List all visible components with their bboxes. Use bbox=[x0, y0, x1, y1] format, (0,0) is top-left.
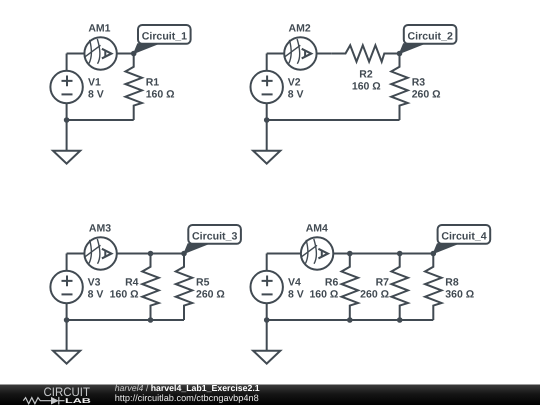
svg-text:V2: V2 bbox=[288, 76, 301, 88]
node Circuit_4 bbox=[431, 251, 437, 257]
svg-text:R4: R4 bbox=[125, 276, 139, 288]
wire bottom rail bbox=[67, 119, 134, 121]
svg-text:R2: R2 bbox=[359, 69, 373, 81]
svg-text:260 Ω: 260 Ω bbox=[196, 289, 225, 301]
node Circuit_2 bbox=[397, 51, 403, 57]
svg-text:Circuit_1: Circuit_1 bbox=[142, 30, 187, 42]
svg-text:AM3: AM3 bbox=[89, 222, 111, 234]
svg-text:8 V: 8 V bbox=[288, 289, 304, 301]
wire bottom rail 3 bbox=[67, 319, 184, 321]
ground 3 bbox=[53, 320, 80, 364]
resistor R8 bbox=[425, 254, 442, 321]
label V3 8 V bbox=[88, 276, 104, 300]
junction V3 rail bbox=[64, 317, 70, 323]
ammeter AM2 bbox=[284, 37, 316, 69]
ammeter AM1 bbox=[84, 37, 116, 69]
ground 4 bbox=[253, 320, 280, 364]
svg-text:harvel4 / harvel4_Lab1_Exercis: harvel4 / harvel4_Lab1_Exercise2.1 bbox=[115, 383, 260, 393]
svg-text:R6: R6 bbox=[325, 276, 339, 288]
svg-text:V3: V3 bbox=[88, 276, 101, 288]
svg-text:Circuit_4: Circuit_4 bbox=[441, 230, 486, 242]
label R2 160 Ohm bbox=[352, 69, 381, 93]
resistor R6 bbox=[342, 254, 359, 321]
wire top: V3 to AM3 to node bbox=[67, 253, 184, 255]
svg-text:R1: R1 bbox=[146, 76, 160, 88]
svg-text:http://circuitlab.com/ctbcngav: http://circuitlab.com/ctbcngavbp4n8 bbox=[115, 393, 259, 403]
wire bottom rail 4 bbox=[267, 319, 434, 321]
flag Circuit_3 bbox=[184, 225, 241, 254]
svg-text:160 Ω: 160 Ω bbox=[110, 289, 139, 301]
svg-text:8 V: 8 V bbox=[288, 89, 304, 101]
wire top: V2 to AM2 to R2 bbox=[267, 53, 332, 55]
logo diode bbox=[51, 397, 59, 405]
wire bottom rail 2 bbox=[267, 119, 400, 121]
wire V4 left vertical bbox=[266, 254, 268, 321]
svg-text:AM2: AM2 bbox=[289, 22, 311, 34]
svg-text:V4: V4 bbox=[288, 276, 301, 288]
junction R7 top bbox=[397, 251, 403, 257]
resistor R2 bbox=[332, 45, 400, 62]
label R7 260 Ohm bbox=[360, 276, 389, 300]
ground bbox=[53, 120, 80, 164]
voltage source V2 bbox=[251, 71, 283, 103]
ground 2 bbox=[253, 120, 280, 164]
junction R4 bottom bbox=[148, 317, 154, 323]
svg-text:R5: R5 bbox=[196, 276, 210, 288]
resistor R5 bbox=[176, 254, 193, 321]
voltage source V1 bbox=[50, 71, 82, 103]
resistor R1 bbox=[125, 54, 142, 121]
flag Circuit_1 bbox=[134, 25, 191, 54]
svg-text:CIRCUIT: CIRCUIT bbox=[44, 385, 91, 399]
svg-text:Circuit_3: Circuit_3 bbox=[192, 230, 237, 242]
resistor R7 bbox=[391, 254, 408, 321]
junction at V2 bottom rail bbox=[264, 117, 270, 123]
svg-text:R7: R7 bbox=[376, 276, 390, 288]
svg-text:260 Ω: 260 Ω bbox=[360, 289, 389, 301]
wire V1 left vertical bbox=[66, 54, 68, 121]
flag Circuit_2 bbox=[400, 25, 457, 54]
label R8 360 Ohm bbox=[445, 276, 474, 300]
svg-text:R3: R3 bbox=[412, 76, 426, 88]
svg-text:160 Ω: 160 Ω bbox=[352, 81, 381, 93]
svg-text:V1: V1 bbox=[88, 76, 101, 88]
label R6 160 Ohm bbox=[309, 276, 338, 300]
label R4 160 Ohm bbox=[110, 276, 139, 300]
wire V3 left vertical bbox=[66, 254, 68, 321]
junction R6 bottom bbox=[347, 317, 353, 323]
node Circuit_3 bbox=[181, 251, 187, 257]
ammeter AM3 bbox=[84, 237, 116, 269]
junction at V1 bottom rail bbox=[64, 117, 70, 123]
svg-text:160 Ω: 160 Ω bbox=[146, 89, 175, 101]
svg-text:Circuit_2: Circuit_2 bbox=[408, 30, 453, 42]
svg-text:260 Ω: 260 Ω bbox=[412, 89, 441, 101]
junction R6 top bbox=[347, 251, 353, 257]
svg-text:8 V: 8 V bbox=[88, 289, 104, 301]
wire top: V4 to AM4 to node bbox=[267, 253, 434, 255]
junction R4 top bbox=[148, 251, 154, 257]
svg-text:160 Ω: 160 Ω bbox=[309, 289, 338, 301]
wire V2 left vertical bbox=[266, 54, 268, 121]
resistor R3 bbox=[391, 54, 408, 121]
svg-text:LAB: LAB bbox=[65, 398, 91, 405]
svg-text:R8: R8 bbox=[445, 276, 459, 288]
voltage source V4 bbox=[251, 271, 283, 303]
label R3 260 Ohm bbox=[412, 76, 441, 100]
label V2 8 V bbox=[288, 76, 304, 100]
svg-text:8 V: 8 V bbox=[88, 89, 104, 101]
junction R7 bottom bbox=[397, 317, 403, 323]
junction V4 rail bbox=[264, 317, 270, 323]
wire top: V1 to AM1 to node bbox=[67, 53, 134, 55]
node Circuit_1 bbox=[131, 51, 137, 57]
svg-text:AM4: AM4 bbox=[306, 222, 328, 234]
ammeter AM4 bbox=[301, 237, 333, 269]
label R1 160 Ohm bbox=[146, 76, 175, 100]
flag Circuit_4 bbox=[433, 225, 490, 254]
label V4 8 V bbox=[288, 276, 304, 300]
logo resistor zigzag bbox=[23, 398, 51, 404]
label R5 260 Ohm bbox=[196, 276, 225, 300]
svg-text:360 Ω: 360 Ω bbox=[445, 289, 474, 301]
resistor R4 bbox=[142, 254, 159, 321]
svg-text:AM1: AM1 bbox=[88, 22, 110, 34]
label V1 8 V bbox=[88, 76, 104, 100]
voltage source V3 bbox=[50, 271, 82, 303]
